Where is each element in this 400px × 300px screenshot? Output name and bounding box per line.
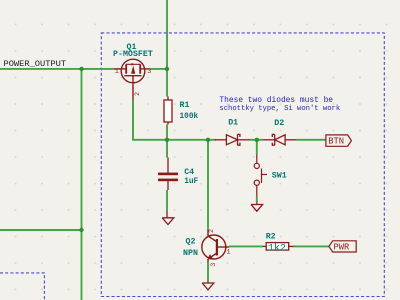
svg-text:C4: C4: [184, 168, 194, 177]
svg-text:1: 1: [227, 249, 231, 257]
svg-text:R1: R1: [180, 101, 190, 110]
svg-text:P-MOSFET: P-MOSFET: [113, 50, 153, 59]
svg-text:PWR: PWR: [334, 242, 351, 252]
svg-text:3: 3: [210, 263, 218, 267]
svg-text:1uF: 1uF: [184, 178, 198, 186]
svg-text:R2: R2: [266, 233, 276, 242]
svg-text:1k2: 1k2: [268, 242, 286, 254]
svg-text:100k: 100k: [180, 113, 199, 121]
svg-text:POWER_OUTPUT: POWER_OUTPUT: [4, 59, 67, 69]
svg-text:D2: D2: [274, 119, 284, 128]
svg-text:BTN: BTN: [328, 137, 344, 147]
svg-text:schottky type, Si won't work: schottky type, Si won't work: [219, 105, 340, 113]
svg-text:SW1: SW1: [272, 171, 287, 180]
svg-text:1: 1: [115, 68, 119, 76]
svg-text:NPN: NPN: [183, 249, 198, 258]
svg-text:D1: D1: [228, 118, 238, 127]
svg-text:2: 2: [208, 229, 216, 233]
svg-text:2: 2: [134, 92, 142, 96]
svg-text:Q2: Q2: [186, 238, 196, 247]
svg-text:3: 3: [147, 68, 151, 76]
svg-text:These two diodes must be: These two diodes must be: [219, 96, 333, 105]
